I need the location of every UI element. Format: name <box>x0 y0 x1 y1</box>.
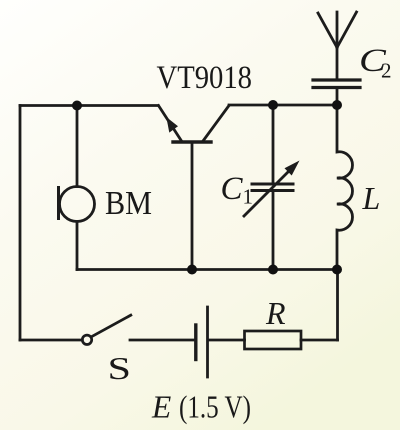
svg-text:E: E <box>151 390 171 425</box>
svg-text:(1.5 V): (1.5 V) <box>179 390 251 425</box>
capacitor C2 <box>313 80 360 88</box>
label C2 <box>359 41 392 82</box>
wire upper rail right segment <box>229 104 337 107</box>
wire BM top lead <box>76 106 79 187</box>
node L bottom junction <box>332 265 342 275</box>
wire bottom rail <box>77 268 337 271</box>
arrowhead of C1 <box>285 161 300 176</box>
capacitor C1 (variable) <box>244 167 293 216</box>
svg-text:L: L <box>362 180 381 216</box>
wire C1 bottom lead <box>272 192 275 270</box>
node BM top junction <box>72 101 82 111</box>
inductor L <box>337 105 352 270</box>
svg-text:1: 1 <box>243 185 254 209</box>
wire C2 bottom lead <box>336 88 339 105</box>
wire C1 top lead <box>272 105 275 183</box>
wire upper rail left segment <box>20 104 158 107</box>
wire battery to resistor <box>209 339 245 342</box>
microphone BM <box>59 186 95 222</box>
node base/rail junction <box>187 265 197 275</box>
wire switch feed <box>20 339 82 342</box>
wire transistor base lead <box>191 142 194 270</box>
svg-text:R: R <box>265 295 286 331</box>
label E (1.5 V) <box>151 390 251 425</box>
wire resistor to right wire <box>301 339 338 342</box>
emitter arrow of VT9018 <box>166 117 178 133</box>
label S <box>108 352 131 387</box>
resistor R <box>245 331 302 349</box>
svg-text:2: 2 <box>381 59 392 83</box>
wire BM bottom lead <box>76 222 79 270</box>
transistor VT9018 <box>159 106 230 143</box>
svg-text:S: S <box>108 352 131 387</box>
node C2/L junction <box>332 100 342 110</box>
node C1 bottom junction <box>268 265 278 275</box>
battery E <box>196 307 208 377</box>
wire right down wire <box>336 270 339 341</box>
svg-text:VT9018: VT9018 <box>157 60 253 96</box>
antenna <box>318 12 357 79</box>
wire left outer vertical <box>19 106 22 341</box>
wire switch contact to battery <box>130 339 195 342</box>
node collector/C1 junction <box>268 100 278 110</box>
switch S <box>82 315 132 345</box>
label C1 <box>221 171 254 209</box>
svg-text:BM: BM <box>105 185 152 222</box>
svg-text:C: C <box>221 171 244 207</box>
